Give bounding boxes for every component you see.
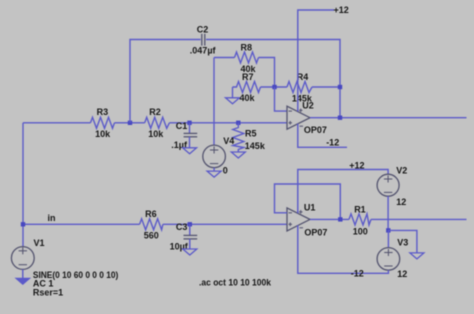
ground under V4	[207, 171, 221, 177]
resistor R8	[235, 43, 259, 75]
capacitor C1	[171, 121, 197, 150]
svg-text:+12: +12	[349, 161, 364, 171]
resistor R2	[145, 107, 170, 139]
svg-text:560: 560	[144, 231, 159, 241]
wire R8 left lead	[214, 57, 235, 59]
node C3 junction	[188, 222, 192, 226]
wire V1 bottom stub	[22, 269, 24, 278]
svg-text:V4: V4	[223, 136, 234, 146]
wire V3 bottom and -12 rail to U1	[298, 225, 389, 273]
resistor R3	[91, 107, 115, 139]
wire mid node to V3	[387, 230, 389, 247]
wire U2 V+ pin to +12	[298, 10, 334, 112]
ground right of V3	[410, 253, 424, 259]
voltage source V4	[203, 136, 235, 176]
wire R4 right lead	[312, 86, 340, 88]
node R3/R2/C2 junction	[128, 121, 132, 125]
svg-text:10µf: 10µf	[170, 242, 189, 252]
wire U2 output	[310, 117, 467, 119]
svg-text:R3: R3	[97, 107, 109, 117]
svg-text:C1: C1	[176, 121, 188, 131]
node U1 output junction	[338, 217, 342, 221]
svg-text:.047µf: .047µf	[190, 45, 217, 55]
node output junction	[338, 116, 342, 120]
svg-text:R5: R5	[245, 129, 257, 139]
ground under R5	[231, 152, 245, 158]
node C1 junction	[187, 121, 191, 125]
svg-text:R2: R2	[149, 107, 161, 117]
svg-text:C2: C2	[197, 24, 209, 34]
wire U1 V+ pin and +12 rail to V2	[298, 170, 388, 214]
svg-text:U2: U2	[302, 101, 314, 111]
node R5 junction	[236, 121, 240, 125]
svg-text:40k: 40k	[240, 93, 256, 103]
svg-text:OP07: OP07	[304, 125, 327, 135]
resistor R7	[233, 72, 261, 103]
wire U1 output	[310, 218, 349, 220]
svg-text:V3: V3	[397, 237, 408, 247]
resistor R6	[140, 209, 163, 241]
wire R8 right to feedback node	[259, 58, 275, 88]
svg-text:V2: V2	[396, 165, 407, 175]
svg-text:+12: +12	[334, 5, 349, 15]
wire U2 V- pin to -12	[298, 124, 347, 148]
svg-text:12: 12	[397, 269, 407, 279]
ground under R7	[226, 98, 240, 104]
svg-text:U1: U1	[304, 202, 316, 212]
ground under C1	[183, 148, 197, 154]
wire in row	[23, 223, 140, 225]
svg-text:-12: -12	[326, 138, 339, 148]
svg-text:100: 100	[353, 226, 368, 236]
svg-text:OP07: OP07	[304, 228, 327, 238]
svg-text:R8: R8	[241, 43, 253, 53]
svg-text:10k: 10k	[95, 129, 111, 139]
resistor R5	[233, 123, 266, 152]
wire U2 inverting input	[275, 87, 288, 111]
svg-text:R6: R6	[145, 209, 157, 219]
V1 value labels	[33, 270, 118, 297]
wire R2 to U2 plus input	[169, 122, 287, 124]
capacitor C2	[190, 24, 217, 55]
resistor R4	[287, 72, 313, 103]
wire V4 bottom stub	[213, 168, 215, 171]
svg-text:-12: -12	[351, 268, 364, 278]
svg-text:0: 0	[223, 166, 228, 176]
svg-text:R4: R4	[297, 72, 309, 82]
svg-text:.1µf: .1µf	[171, 140, 188, 150]
op-amp U2	[287, 101, 327, 136]
svg-text:V1: V1	[34, 238, 45, 248]
wire mid node to ground branch	[388, 230, 417, 253]
wire main top row left lead	[23, 122, 91, 124]
svg-text:.ac oct 10 10 100k: .ac oct 10 10 100k	[199, 278, 272, 288]
voltage source V3	[377, 237, 408, 279]
voltage source V1	[11, 238, 44, 269]
svg-text:12: 12	[396, 197, 406, 207]
wire C2 branch	[130, 40, 201, 123]
voltage source V2	[377, 165, 407, 207]
svg-text:R7: R7	[242, 72, 254, 82]
ground under V1	[16, 278, 30, 284]
svg-text:10k: 10k	[148, 129, 164, 139]
wire R3 to R2	[115, 122, 145, 124]
svg-text:145k: 145k	[245, 141, 266, 151]
wire R7 to node	[261, 86, 288, 88]
svg-text:Rser=1: Rser=1	[33, 287, 63, 297]
wire R1 right to edge	[371, 218, 467, 220]
node supply mid junction	[386, 228, 390, 232]
node V1/in junction	[21, 222, 25, 226]
op-amp U1	[287, 202, 327, 237]
wire C2 right to output node	[206, 40, 340, 118]
wire V2 bottom to mid node	[387, 196, 389, 230]
node R7/R8/R4 junction	[272, 85, 276, 89]
ground under C3	[183, 249, 197, 255]
wire left vertical V1 to R3 row	[22, 123, 24, 247]
svg-text:in: in	[48, 213, 56, 223]
svg-text:C3: C3	[176, 222, 188, 232]
resistor R1	[349, 204, 371, 236]
wire V4 vertical from R8	[213, 58, 215, 146]
wire R7 ground stem	[232, 87, 234, 98]
wire U1 feedback loop	[275, 184, 341, 219]
capacitor C3	[170, 222, 198, 252]
svg-text:R1: R1	[354, 204, 366, 214]
wire R6 to U1 plus input	[163, 223, 287, 225]
node R4/C2 junction	[338, 85, 342, 89]
